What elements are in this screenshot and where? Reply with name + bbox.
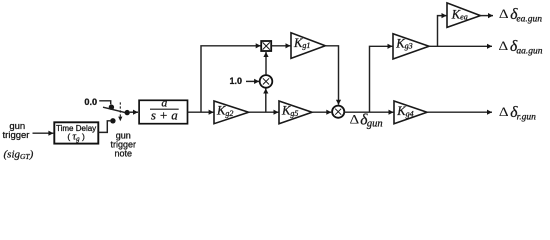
node: switch pole: [125, 110, 130, 115]
wire: branch up to K_ea: [438, 16, 447, 47]
wire: M1 output to K_g1: [272, 45, 291, 47]
svg-text:Kg3: Kg3: [395, 36, 412, 50]
gain K_g1: [291, 33, 325, 59]
switch arm SW1: [103, 107, 128, 113]
gain K_g2: [214, 101, 249, 124]
wire: K_g3 output to aa output arrow: [429, 45, 492, 47]
block: Time Delay U1: [54, 122, 98, 143]
svg-text:Δ: Δ: [350, 113, 360, 127]
wire: K_g2 to K_g5: [249, 111, 279, 113]
svg-text:gun: gun: [367, 119, 383, 130]
svg-text:r.gun: r.gun: [517, 112, 537, 122]
svg-text:Kg1: Kg1: [293, 36, 310, 50]
svg-text:Δ: Δ: [499, 106, 509, 120]
multiplier M2 (circle with X): [260, 75, 273, 88]
svg-text:Δ: Δ: [499, 40, 509, 54]
gain K_g4: [394, 101, 427, 124]
wire: branch up to K_g3: [370, 46, 393, 112]
svg-text:Δ: Δ: [499, 8, 509, 22]
wire: gun trigger to Time Delay: [33, 132, 54, 134]
wire: K_ea output arrow: [480, 15, 493, 17]
svg-text:1.0: 1.0: [230, 76, 243, 86]
gain K_ea: [447, 3, 480, 28]
gain K_g5: [279, 101, 312, 124]
node: switch upper contact: [109, 105, 114, 110]
wire: K_g4 output arrow: [427, 111, 492, 113]
wire: a/(s+a) output to K_g2: [188, 111, 214, 113]
node: switch lower contact: [110, 118, 115, 123]
svg-text:trigger: trigger: [3, 130, 30, 141]
svg-text:0.0: 0.0: [84, 97, 97, 107]
wire: M2 output up to M1: [265, 52, 267, 75]
svg-text:note: note: [115, 148, 133, 158]
svg-text:ea.gun: ea.gun: [516, 14, 542, 24]
wire: M3 output to K_g4: [344, 111, 393, 113]
wire: Time Delay output to switch lower contact: [98, 121, 110, 133]
switch actuation dashed control line: [119, 102, 121, 117]
svg-text:Kg5: Kg5: [281, 104, 298, 118]
wire: 0.0 to switch upper contact: [99, 101, 111, 105]
wire: 1.0 to M2: [246, 80, 259, 82]
svg-text:aa.gun: aa.gun: [516, 46, 542, 56]
svg-text:s + a: s + a: [151, 108, 178, 123]
block: lag filter a/(s+a): [139, 100, 187, 123]
wire: branch up to multiplier M1 top rail: [201, 46, 261, 112]
multiplier M3 (circle with X): [332, 106, 344, 118]
wire: branch up to multiplier M2: [265, 89, 267, 113]
wire: switch pole to a/(s+a): [130, 111, 138, 113]
svg-text:(sigGT): (sigGT): [4, 148, 34, 161]
wire: K_g5 to M3: [312, 111, 331, 113]
multiplier M1 (square): [261, 41, 271, 51]
wire: K_g1 output down to M3: [325, 46, 338, 105]
gain K_g3: [393, 34, 429, 59]
